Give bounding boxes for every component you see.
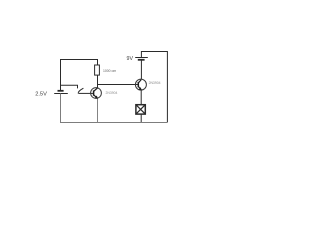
svg-text:1000 om: 1000 om [103, 69, 116, 73]
svg-text:2.5V: 2.5V [35, 92, 47, 98]
svg-text:9V: 9V [127, 56, 134, 62]
svg-text:2N3904: 2N3904 [106, 91, 118, 95]
svg-text:2N3904: 2N3904 [149, 81, 161, 85]
